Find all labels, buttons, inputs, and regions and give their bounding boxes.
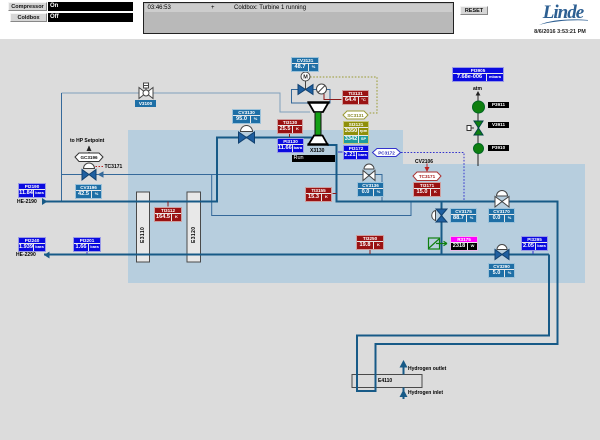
svg-text:GC3196: GC3196: [80, 155, 98, 160]
svg-text:SC3131: SC3131: [347, 113, 364, 118]
svg-text:TC3171: TC3171: [419, 174, 436, 179]
svg-text:PC3172: PC3172: [378, 151, 395, 156]
svg-text:M: M: [303, 75, 308, 81]
